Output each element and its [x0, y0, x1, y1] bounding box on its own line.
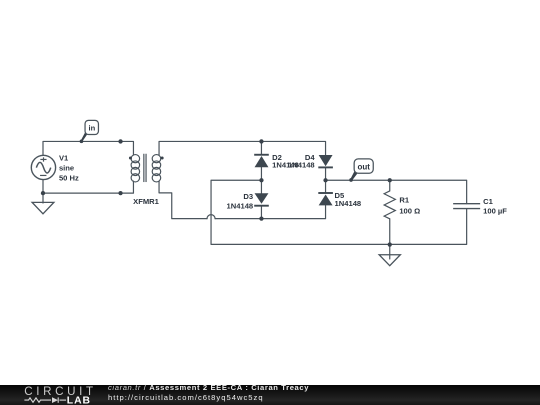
core lines — [143, 154, 145, 182]
svg-text:R1: R1 — [399, 195, 409, 204]
diode D4 — [318, 155, 333, 167]
svg-text:100 µF: 100 µF — [483, 207, 507, 216]
wire R1 leads — [389, 180, 391, 191]
footer url text — [108, 393, 264, 402]
junction D2/D3 mid-left node — [259, 178, 263, 182]
D2 labels — [272, 153, 299, 170]
svg-text:50 Hz: 50 Hz — [59, 174, 79, 183]
svg-text:V1: V1 — [59, 154, 69, 163]
footer title text — [108, 382, 309, 393]
svg-text:D3: D3 — [243, 192, 253, 201]
wire out rail D4/D5 node to C1 — [326, 180, 467, 203]
CircuitLab logo — [0, 384, 100, 405]
junction D3 bottom rail — [259, 217, 263, 221]
wire mid-left node vertical to bottom rail — [211, 180, 467, 244]
secondary winding loops — [152, 155, 161, 163]
voltage source V1 — [31, 155, 55, 179]
wire bottom-left rail V1 to XFMR1 primary — [43, 180, 133, 194]
wire hop over vertical wire — [207, 215, 215, 219]
diode D3 — [254, 193, 269, 206]
diode D2 — [254, 155, 269, 168]
svg-text:sine: sine — [59, 164, 74, 173]
svg-text:in: in — [89, 123, 96, 132]
R1 labels — [399, 195, 420, 215]
node flag in — [80, 120, 99, 143]
svg-text:LAB: LAB — [67, 396, 91, 405]
junction D2 top rail — [259, 139, 263, 143]
C1 labels — [483, 197, 507, 216]
wire R1 ground stem — [389, 244, 391, 259]
D4 labels — [288, 153, 315, 170]
junction dots — [41, 139, 392, 246]
wire XFMR1 secondary bottom to bridge bottom rail — [159, 181, 207, 219]
svg-text:C1: C1 — [483, 197, 493, 206]
svg-text:1N4148: 1N4148 — [288, 160, 315, 169]
wire V1 ground stem — [42, 193, 44, 203]
junction V1 ground node — [41, 191, 45, 195]
wire top rail XFMR1 secondary to D4 — [159, 141, 326, 155]
svg-text:100 Ω: 100 Ω — [399, 206, 420, 215]
footer bar — [0, 385, 540, 405]
wire D4 bottom lead — [325, 167, 327, 193]
wire top-left rail V1 to XFMR1 primary — [43, 141, 133, 155]
wire D2 top lead — [260, 141, 262, 154]
node flag out — [349, 159, 373, 182]
resistor R1 — [384, 191, 395, 219]
ground (below R1) — [379, 255, 400, 266]
junction R1 top — [388, 178, 392, 182]
ground (below V1) — [32, 202, 54, 214]
D5 labels — [335, 191, 362, 208]
wire D2-D3 mid leads — [260, 167, 262, 193]
V1 labels: V1 / sine / 50 Hz — [59, 154, 79, 183]
junction XFMR1 primary bottom pin — [118, 191, 122, 195]
svg-text:out: out — [358, 163, 371, 172]
junction XFMR1 primary top pin — [118, 139, 122, 143]
transformer XFMR1 — [131, 154, 161, 182]
XFMR1 phase dots — [129, 157, 132, 160]
svg-text:1N4148: 1N4148 — [335, 199, 362, 208]
wire D3 bottom lead — [260, 206, 262, 219]
svg-text:1N4148: 1N4148 — [227, 202, 254, 211]
D3 labels — [227, 192, 254, 211]
junction out node D4/D5 — [323, 178, 327, 182]
diode D5 — [318, 193, 333, 205]
wire bridge bottom rail — [215, 205, 326, 218]
junction R1 bottom ground — [388, 242, 392, 246]
primary winding loops — [131, 155, 140, 163]
capacitor C1 — [453, 204, 480, 209]
svg-text:XFMR1: XFMR1 — [133, 197, 160, 206]
